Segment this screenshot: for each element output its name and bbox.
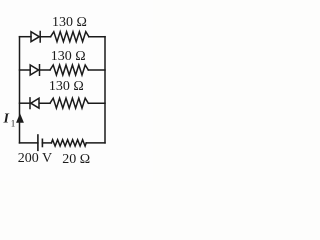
wire bottom left [20,142,38,144]
wire branch2 left [20,69,31,71]
resistor R4 20ohm [51,140,86,146]
svg-text:130 Ω: 130 Ω [49,79,84,94]
resistor R1 130ohm [51,32,89,42]
wire battery to resistor [42,142,51,144]
svg-text:I: I [3,111,10,126]
svg-text:200 V: 200 V [18,151,52,166]
svg-text:130 Ω: 130 Ω [52,15,87,30]
wire branch2 right [88,69,105,71]
svg-text:20 Ω: 20 Ω [62,152,90,167]
wire branch3 right [88,102,105,104]
wire bottom right [86,142,105,144]
wire branch1 right [89,36,105,38]
diode D3 reversed [30,98,50,109]
current arrow I1 [16,113,24,122]
svg-text:130 Ω: 130 Ω [51,49,86,64]
battery 200V long plate [37,135,39,150]
wire left vertical [19,37,21,143]
wire branch1 left [20,36,32,38]
battery 200V short plate [41,139,43,146]
resistor R3 130ohm [50,98,88,108]
wire right vertical [104,37,106,143]
wire branch3 left [20,102,31,104]
diode D1 [31,32,51,43]
resistor R2 130ohm [50,65,88,75]
diode D2 [30,65,50,76]
svg-text:1: 1 [11,118,16,128]
